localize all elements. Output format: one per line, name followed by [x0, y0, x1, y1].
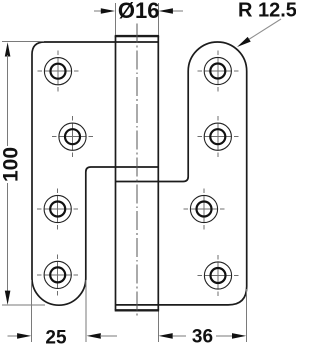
dim Ø16 left arrow: [94, 8, 115, 14]
dim 25 right arrow: [87, 333, 117, 339]
svg-text:Ø16: Ø16: [118, 0, 160, 23]
svg-text:100: 100: [0, 147, 23, 182]
svg-text:25: 25: [45, 327, 67, 345]
screw hole L2: [52, 116, 93, 157]
dim Ø16 extension line right: [158, 3, 160, 35]
dim 36 right extension line: [246, 289, 248, 342]
screw hole L4: [37, 254, 78, 295]
barrel center line: [136, 24, 138, 317]
dim 100 line upper + arrow: [5, 42, 11, 146]
dim Ø16 extension line left: [114, 3, 116, 35]
barrel top cap: [115, 35, 159, 37]
screw hole L1: [38, 51, 79, 92]
dim 36 left extension line: [157, 312, 159, 343]
barrel left edge: [115, 36, 117, 310]
barrel right edge: [157, 36, 159, 310]
screw hole R4: [198, 255, 239, 296]
dim 100 line lower + arrow: [5, 183, 11, 305]
screw hole R1: [197, 51, 238, 92]
svg-text:36: 36: [192, 326, 213, 345]
dim 100 top extension line: [2, 41, 44, 43]
screw hole R3: [184, 189, 225, 230]
dim 25 right extension line: [85, 280, 87, 342]
dim 36 right arrow: [216, 333, 246, 339]
screw hole L3: [37, 189, 78, 230]
barrel bottom cap: [115, 309, 159, 311]
dim 25 left extension line: [31, 280, 33, 342]
left leaf outline: [32, 42, 158, 305]
right leaf outline: [115, 42, 246, 305]
dim Ø16 right arrow: [159, 8, 183, 14]
screw hole R2: [197, 116, 238, 157]
svg-text:R 12.5: R 12.5: [238, 0, 296, 22]
dim R 12.5 leader arrow: [237, 19, 281, 47]
dim 100 bottom extension line: [2, 304, 45, 306]
dim 36 left arrow: [159, 333, 187, 339]
dim 25 left arrow: [7, 333, 31, 339]
